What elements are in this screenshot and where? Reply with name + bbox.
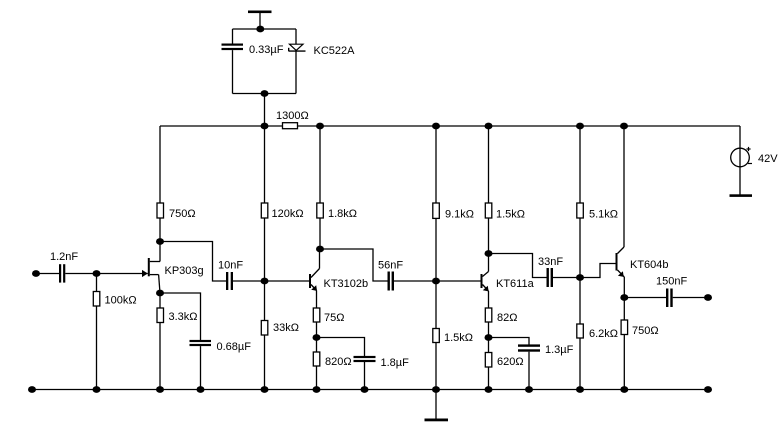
wire node E2 to R 820 [316, 338, 318, 353]
wire node E4 to R 750 [623, 298, 625, 321]
svg-text:0.33µF: 0.33µF [249, 44, 284, 56]
svg-text:0.68µF: 0.68µF [217, 341, 252, 353]
wire R750 to ground rail [623, 335, 625, 390]
wire rail to R 5.1k [579, 126, 581, 203]
wire node B3 to R 1.5k lower [435, 281, 437, 329]
node emitter Q4 [620, 294, 628, 301]
svg-text:6.2kΩ: 6.2kΩ [589, 328, 618, 340]
resistor 3.3kohm [157, 308, 164, 323]
node drain [156, 238, 164, 245]
plus sign [746, 147, 750, 151]
resistor 100kohm [93, 292, 100, 307]
node gnd-1.8uF [361, 386, 369, 393]
node gnd-620 [485, 386, 493, 393]
resistor 750ohm emitter [621, 320, 628, 335]
svg-text:KC522A: KC522A [314, 45, 356, 57]
node E2 [313, 334, 321, 341]
wire R6.2k to ground rail [579, 338, 581, 390]
minus sign [748, 163, 752, 165]
wire C150nF to output [673, 297, 708, 299]
wire C1 to gate [65, 273, 148, 275]
wire input to C1 [36, 273, 59, 275]
svg-text:1300Ω: 1300Ω [276, 110, 309, 122]
svg-text:33kΩ: 33kΩ [273, 322, 299, 334]
resistor 620ohm [485, 353, 492, 368]
node rail-zener [261, 123, 269, 130]
capacitor 0.68uF [190, 340, 212, 346]
wire rail to R 120k [264, 126, 266, 203]
transistor Q4 KT604b [616, 126, 625, 298]
svg-text:1.5kΩ: 1.5kΩ [496, 209, 525, 221]
node gnd-3.3k [156, 386, 164, 393]
output terminal [704, 294, 712, 301]
wire rail to R 750 top [159, 126, 161, 203]
resistor 1.8kohm [317, 203, 324, 218]
wire node B2 to base Q2 [265, 280, 310, 282]
node gnd-33k [261, 386, 269, 393]
svg-text:750Ω: 750Ω [632, 325, 659, 337]
wire R1.5k to collector node [488, 218, 490, 254]
resistor 6.2kohm [577, 324, 584, 338]
svg-text:100kΩ: 100kΩ [105, 295, 137, 307]
wire R33k to ground rail [264, 335, 266, 390]
svg-text:75Ω: 75Ω [324, 312, 344, 324]
wire loop bottom [233, 93, 297, 95]
wire loop top [233, 28, 297, 30]
wire loop right lower [295, 51, 297, 94]
resistor 820ohm [313, 352, 320, 366]
ground symbol [425, 419, 449, 422]
wire R100k to ground rail [96, 306, 98, 390]
ground bar under source [730, 194, 753, 197]
wire R820 to ground rail [316, 366, 318, 390]
svg-text:620Ω: 620Ω [497, 356, 524, 368]
wire R620 to ground rail [488, 367, 490, 390]
svg-text:42V: 42V [758, 153, 778, 165]
node loop bottom [261, 90, 269, 97]
node rail-collector Q4 [620, 123, 628, 130]
node collector Q2 [316, 246, 324, 253]
transistor Q1 KP303g JFET [142, 242, 160, 294]
wire C0.68 to ground rail [200, 346, 202, 389]
transistor Q3 KT611a [481, 254, 489, 309]
wire ground rail [32, 389, 708, 391]
wire loop left upper [232, 29, 234, 44]
wire node E4 to C 150nF [624, 297, 666, 299]
wire C33nF to node B4 [553, 277, 580, 279]
node rail-9.1k [432, 123, 440, 130]
wire source to C 0.68uF [160, 293, 201, 340]
node B4 [576, 274, 584, 281]
node gnd-820 [313, 386, 321, 393]
wire node E3 to C 1.3uF [489, 338, 530, 345]
svg-text:56nF: 56nF [378, 260, 403, 272]
power terminal bar top [248, 11, 272, 14]
svg-text:1.8µF: 1.8µF [381, 357, 410, 369]
transistor Q2 KT3102b [309, 249, 320, 308]
wire R82 to node E3 [488, 322, 490, 338]
resistor 1.5kohm lower [433, 329, 440, 343]
resistor 82ohm [485, 308, 492, 322]
resistor 1.5kohm upper [485, 203, 492, 218]
wire top supply rail [160, 125, 740, 127]
wire R750 to drain node [159, 218, 161, 242]
capacitor 1.3uF [518, 344, 540, 351]
wire collector Q3 to C 33nF [489, 254, 547, 278]
svg-text:820Ω: 820Ω [325, 356, 352, 368]
node rail-1.8k [316, 123, 324, 130]
wire R120k to node B2 [264, 218, 266, 281]
svg-text:10nF: 10nF [218, 260, 243, 272]
wire R1.8k to collector node [319, 218, 321, 249]
wire node to R 100k [96, 274, 98, 292]
node gnd-750 [620, 386, 628, 393]
svg-text:3.3kΩ: 3.3kΩ [169, 311, 198, 323]
node B3 [432, 278, 440, 285]
capacitor 56nF [388, 272, 395, 291]
capacitor 1.8uF [354, 356, 376, 362]
wire node B3 to base Q3 [436, 280, 481, 282]
capacitor 1.2nF [59, 264, 65, 282]
wire rail to ground symbol [435, 390, 437, 420]
wire node B4 to R 6.2k [579, 278, 581, 325]
node gate-100k [93, 270, 101, 277]
node E3 [485, 334, 493, 341]
svg-text:9.1kΩ: 9.1kΩ [445, 209, 474, 221]
svg-text:1.5kΩ: 1.5kΩ [444, 332, 473, 344]
svg-text:150nF: 150nF [656, 276, 687, 288]
svg-text:1.2nF: 1.2nF [50, 251, 78, 263]
resistor 75ohm [313, 308, 320, 322]
wire loop right upper [295, 29, 297, 44]
node rail-5.1k [576, 123, 584, 130]
wire R9.1k to node B3 [435, 218, 437, 281]
resistor 33kohm [261, 321, 268, 336]
wire power bar to loop top [259, 13, 261, 29]
wire C56nF to node B3 [394, 280, 436, 282]
wire source to R3.3k [159, 293, 161, 308]
terminal ground right [704, 386, 712, 393]
svg-text:KT604b: KT604b [630, 259, 669, 271]
resistor 5.1kohm [577, 203, 584, 218]
wire node E3 to R 620 [488, 338, 490, 353]
node gnd-1.5k [432, 386, 440, 393]
node gnd-100k [93, 386, 101, 393]
capacitor 33nF [547, 268, 554, 287]
node rail-1.5k [485, 123, 493, 130]
node B2 [261, 278, 269, 285]
wire node B2 to R 33k [264, 281, 266, 321]
node loop top [256, 26, 264, 33]
wire rail to supply 42V [739, 126, 741, 195]
svg-text:120kΩ: 120kΩ [272, 208, 304, 220]
svg-text:KP303g: KP303g [165, 265, 204, 277]
wire C1.3uF to ground rail [528, 352, 530, 390]
svg-text:5.1kΩ: 5.1kΩ [589, 209, 618, 221]
wire drain to C 10nF [160, 242, 226, 282]
resistor 750ohm drain [157, 203, 164, 218]
wire rail to R 1.5k upper [488, 126, 490, 203]
wire rail to R 1.8k [319, 126, 321, 203]
node gnd-6.2k [576, 386, 584, 393]
capacitor 10nF [226, 272, 233, 290]
svg-text:1.8kΩ: 1.8kΩ [328, 208, 357, 220]
wire collector Q2 to C 56nF [320, 249, 388, 281]
wire R75 to node E2 [316, 322, 318, 338]
svg-text:KT611a: KT611a [496, 278, 535, 290]
node source [156, 290, 164, 297]
input terminal [32, 270, 40, 277]
zener diode KC522A [289, 44, 306, 51]
svg-text:1.3µF: 1.3µF [545, 344, 574, 356]
wire loop to rail [264, 94, 266, 127]
node gnd-0.68uF [197, 386, 205, 393]
wire rail to R 9.1k [435, 126, 437, 203]
node gnd-1.3uF [525, 386, 533, 393]
wire C1.8uF to ground rail [364, 362, 366, 390]
wire R3.3k to ground rail [159, 323, 161, 390]
wire node E2 to C 1.8uF [317, 338, 365, 357]
svg-text:KT3102b: KT3102b [324, 278, 369, 290]
svg-text:750Ω: 750Ω [169, 208, 196, 220]
svg-text:82Ω: 82Ω [497, 312, 517, 324]
wire node B4 to base Q4 [580, 264, 616, 278]
wire R5.1k to node B4 [579, 218, 581, 278]
resistor 9.1kohm [433, 203, 440, 218]
node collector Q3 [485, 250, 493, 257]
capacitor C 0.33uF [222, 44, 244, 51]
resistor 1300ohm [283, 123, 298, 129]
terminal ground left [28, 386, 36, 393]
svg-text:33nF: 33nF [538, 256, 563, 268]
wire loop left lower [232, 50, 234, 93]
wire R1.5k to ground rail [435, 343, 437, 390]
capacitor 150nF [666, 289, 673, 308]
resistor 120kohm [261, 203, 268, 218]
source V1 42V [731, 148, 750, 167]
wire C10nF to node B2 [233, 280, 265, 282]
